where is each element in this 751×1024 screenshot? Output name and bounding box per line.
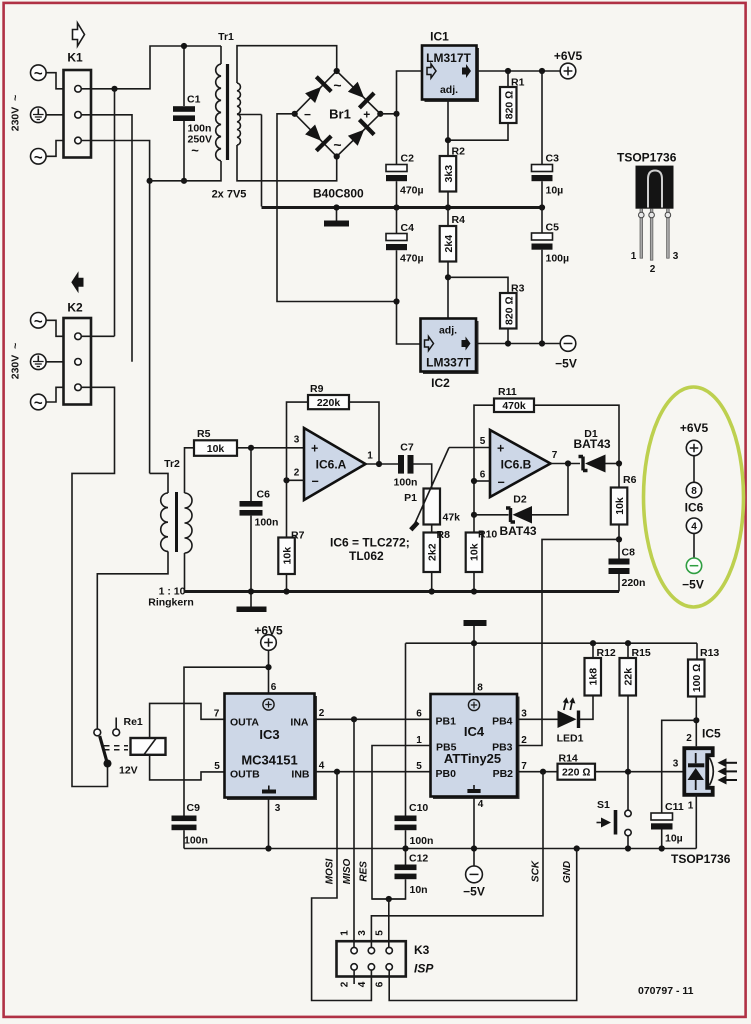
svg-text:10k: 10k: [207, 443, 225, 455]
node R5/C6: [248, 445, 254, 451]
AC source symbol (K2 bottom): [31, 387, 64, 412]
node K1 t1 / K2 feed: [111, 86, 117, 92]
svg-text:3: 3: [357, 930, 368, 936]
TSOP1736 package drawing: [617, 151, 679, 276]
svg-text:~: ~: [333, 137, 341, 153]
node R1 top: [505, 68, 511, 74]
svg-text:Tr1: Tr1: [218, 31, 234, 43]
node pin8: [471, 640, 477, 646]
svg-text:Ringkern: Ringkern: [148, 597, 194, 609]
svg-text:10n: 10n: [410, 884, 428, 896]
svg-text:3: 3: [294, 435, 300, 446]
push button S1: [597, 799, 632, 849]
-5V output terminal: [555, 336, 577, 371]
capacitor C3 (polarized): [532, 71, 564, 208]
svg-text:C9: C9: [187, 802, 201, 814]
resistor R15: [620, 643, 651, 810]
svg-text:2: 2: [340, 981, 351, 987]
node C3 top: [539, 68, 545, 74]
+6V5 distribution rail: [406, 642, 698, 644]
svg-text:4: 4: [319, 761, 325, 772]
svg-text:10µ: 10µ: [546, 185, 564, 197]
svg-text:~: ~: [34, 395, 43, 412]
svg-text:070797 - 11: 070797 - 11: [638, 985, 694, 997]
svg-text:C3: C3: [546, 153, 560, 165]
svg-text:7: 7: [214, 709, 220, 720]
svg-text:C10: C10: [409, 802, 428, 814]
connector K1: [64, 51, 92, 158]
svg-text:1: 1: [631, 251, 637, 262]
resistor R3: [500, 283, 525, 344]
arrow mains-in (outline, pointing right): [73, 23, 85, 46]
ground symbol (signal rail): [237, 592, 267, 613]
relay switch contact Re1: [94, 716, 143, 777]
svg-text:5: 5: [480, 436, 486, 447]
diode D2 BAT43: [474, 464, 568, 539]
diode D1 BAT43: [573, 428, 619, 473]
svg-text:LED1: LED1: [557, 733, 584, 745]
wire Tr1 centre tap to 0V rail: [261, 115, 263, 207]
svg-text:6: 6: [480, 470, 486, 481]
IC4 ATTiny25: [416, 683, 527, 811]
svg-text:INA: INA: [290, 717, 309, 729]
capacitor C7 (series): [394, 442, 432, 489]
svg-text:6: 6: [416, 709, 422, 720]
wire +6V5 to C9: [184, 667, 269, 815]
wire IC3 pin3 to -5V rail: [268, 798, 270, 849]
node rail R8: [429, 588, 435, 594]
capacitor C1: [173, 46, 212, 181]
svg-text:~: ~: [191, 143, 199, 158]
wire K1 t1 to Tr1 primary top: [81, 46, 221, 89]
wire pin5 leg: [388, 899, 390, 947]
+6V5 supply tap (mid): [254, 624, 283, 694]
K3 pin2 stub: [353, 970, 355, 984]
svg-text:230V ~: 230V ~: [10, 95, 22, 132]
wire plus column up to IC1 input: [397, 71, 423, 165]
resistor R9 (feedback): [287, 383, 380, 480]
svg-text:10k: 10k: [469, 543, 481, 561]
svg-text:C2: C2: [401, 153, 415, 165]
svg-text:RES: RES: [359, 861, 370, 882]
node R6/C8/PB3: [616, 536, 622, 542]
wire K2 t3 to relay switch: [72, 387, 115, 786]
resistor R12: [585, 643, 616, 695]
node R13/C11/IC5 pin2: [693, 717, 699, 723]
wire IC1 out to +6V5: [477, 70, 561, 72]
node C5 bottom: [539, 340, 545, 346]
resistor R11 (feedback): [474, 386, 619, 533]
node C1 bottom: [181, 178, 187, 184]
svg-text:100n: 100n: [410, 835, 434, 847]
svg-text:10k: 10k: [614, 497, 626, 515]
node rail S1: [625, 845, 631, 851]
svg-text:470k: 470k: [502, 400, 526, 412]
wire bridge plus to regulator column: [380, 113, 396, 115]
svg-text:R5: R5: [197, 428, 211, 440]
IC2 LM337T: [421, 319, 479, 391]
svg-text:IC6 = TLC272;: IC6 = TLC272;: [330, 536, 410, 550]
resistor R1: [448, 71, 525, 140]
node C4/bridge-minus junction: [393, 298, 399, 304]
svg-text:3: 3: [275, 803, 281, 814]
svg-text:IC2: IC2: [431, 376, 450, 390]
-5V bottom rail: [184, 848, 696, 850]
node rail C10: [402, 845, 408, 851]
wire IC5 pin1 to -5V rail: [695, 795, 697, 849]
svg-text:~: ~: [34, 313, 43, 330]
svg-text:PB1: PB1: [436, 716, 457, 728]
wire relay coil to IC3 OUTA/OUTB: [150, 703, 225, 738]
green ellipse IC6 power: [644, 387, 744, 607]
wire C8 node to IC4 PB3: [517, 539, 619, 745]
svg-text:820 Ω: 820 Ω: [503, 296, 515, 325]
capacitor C11 (polarized): [651, 720, 696, 848]
arrow load-out (filled, pointing left): [71, 271, 83, 293]
svg-text:7: 7: [552, 450, 558, 461]
resistor R8: [424, 529, 451, 592]
svg-text:7: 7: [521, 761, 527, 772]
node rail R2/R4: [445, 204, 451, 210]
svg-text:C8: C8: [622, 547, 636, 559]
+6V5 supply bar (IC4): [464, 620, 487, 626]
0V mid rail: [262, 206, 543, 209]
svg-text:TL062: TL062: [349, 549, 384, 563]
svg-text:2k4: 2k4: [443, 235, 455, 253]
wire rail left leg to C10: [405, 643, 407, 815]
svg-text:R9: R9: [310, 383, 324, 395]
transformer Tr2 (current transformer): [97, 448, 194, 729]
svg-text:PB5: PB5: [436, 742, 457, 754]
wire P1 wiper to IC6.B pin5: [449, 447, 490, 449]
wire RES: PB5 to K3 pin5: [372, 746, 431, 900]
wire IC6.A output: [366, 463, 399, 465]
ground symbol (0V rail): [324, 208, 349, 227]
svg-text:D2: D2: [513, 494, 527, 506]
svg-text:100µ: 100µ: [546, 253, 570, 265]
svg-text:PB0: PB0: [436, 768, 457, 780]
svg-text:K3: K3: [414, 943, 430, 957]
svg-text:2: 2: [521, 735, 527, 746]
svg-text:820 Ω: 820 Ω: [503, 91, 515, 120]
wire IC6.B output: [551, 463, 581, 465]
node rail C3/C5: [539, 204, 545, 210]
IC1 adj column / node: [447, 100, 449, 157]
AC source symbol L (K1 top): [31, 65, 64, 89]
svg-text:−: −: [498, 476, 505, 490]
svg-text:PB3: PB3: [492, 742, 513, 754]
connector K3 ISP: [337, 930, 435, 988]
node output/D2 return: [565, 460, 571, 466]
svg-text:R10: R10: [478, 529, 497, 541]
wire Tr1 primary bottom: [150, 161, 221, 181]
svg-text:C1: C1: [187, 94, 201, 106]
-5V supply tap: [463, 849, 485, 899]
svg-text:R2: R2: [452, 146, 466, 158]
svg-text:5: 5: [214, 761, 220, 772]
node rail C2/C4: [393, 204, 399, 210]
resistor R2: [440, 146, 465, 208]
svg-text:R13: R13: [700, 647, 719, 659]
svg-text:R3: R3: [511, 283, 525, 295]
resistor R10: [466, 529, 498, 592]
svg-text:470µ: 470µ: [400, 253, 424, 265]
wire MISO: PB1 to K3 pin1: [353, 719, 355, 947]
svg-text:230V ~: 230V ~: [10, 343, 22, 380]
svg-text:IC6.A: IC6.A: [316, 458, 347, 472]
svg-text:INB: INB: [291, 769, 310, 781]
node MISO tap: [351, 716, 357, 722]
wire K1 t3 down (mains L): [81, 141, 149, 474]
svg-text:−: −: [312, 475, 319, 489]
svg-text:R11: R11: [498, 386, 517, 398]
svg-text:MC34151: MC34151: [241, 753, 297, 768]
capacitor C2 (polarized): [386, 153, 424, 208]
svg-text:P1: P1: [404, 492, 417, 504]
svg-text:IC5: IC5: [702, 727, 721, 741]
node D1/R11/R6: [616, 460, 622, 466]
svg-text:1: 1: [340, 930, 351, 936]
node rail IC3 pin3: [265, 845, 271, 851]
svg-text:5: 5: [416, 761, 422, 772]
node Tr1 primary bottom: [147, 178, 153, 184]
node rail C11: [659, 845, 665, 851]
svg-text:4: 4: [478, 799, 484, 810]
node pin6: [471, 478, 477, 484]
node R3 bottom: [505, 340, 511, 346]
node rail GND leg: [574, 845, 580, 851]
svg-text:220k: 220k: [317, 397, 341, 409]
resistor R4: [440, 208, 465, 319]
svg-text:8: 8: [691, 486, 697, 497]
node R4/R3 adj junction: [445, 274, 451, 280]
svg-text:S1: S1: [597, 799, 610, 811]
svg-text:R7: R7: [291, 530, 305, 542]
capacitor C10: [395, 802, 434, 865]
IR arrows into IC5: [718, 758, 738, 784]
wire IC6.B pin6: [474, 480, 490, 482]
svg-text:LM317T: LM317T: [426, 51, 471, 65]
LED1: [517, 696, 593, 745]
svg-text:~: ~: [34, 149, 43, 166]
IC5 TSOP1736 receiver: [673, 727, 721, 812]
svg-text:Br1: Br1: [329, 107, 351, 122]
svg-text:IC4: IC4: [464, 724, 485, 739]
wire supply bar to +6V5 rail and IC4 pin8: [473, 626, 475, 694]
svg-text:3k3: 3k3: [443, 165, 455, 183]
svg-text:ISP: ISP: [414, 962, 434, 976]
node R14/R15/S1: [625, 769, 631, 775]
svg-text:R15: R15: [632, 647, 651, 659]
resistor R6: [611, 464, 637, 540]
svg-text:22k: 22k: [623, 668, 635, 686]
svg-text:5: 5: [375, 930, 386, 936]
svg-text:K1: K1: [67, 51, 83, 65]
earth symbol (K1 mid): [31, 107, 64, 123]
svg-text:2: 2: [650, 264, 656, 275]
wire PB3 stub (already drawn) / resistor R14: [517, 753, 683, 780]
svg-text:R12: R12: [597, 647, 616, 659]
svg-text:+: +: [497, 442, 504, 456]
op-amp IC6.A: [294, 428, 374, 500]
node RES/pin5: [386, 896, 392, 902]
node output/feedback: [376, 461, 382, 467]
svg-text:B40C800: B40C800: [313, 187, 364, 201]
svg-text:4: 4: [357, 981, 368, 987]
svg-text:TSOP1736: TSOP1736: [617, 151, 677, 165]
svg-text:Tr2: Tr2: [164, 458, 180, 470]
bridge rectifier Br1: [292, 68, 384, 201]
capacitor C8: [609, 539, 646, 591]
resistor R7: [278, 480, 304, 591]
node MOSI tap: [334, 769, 340, 775]
svg-text:BAT43: BAT43: [499, 524, 536, 538]
svg-text:100n: 100n: [394, 477, 418, 489]
svg-text:C7: C7: [400, 442, 414, 454]
node pin2/R7: [283, 477, 289, 483]
node rail gnd stub: [333, 204, 339, 210]
capacitor C12: [372, 853, 428, 900]
svg-text:MOSI: MOSI: [325, 859, 336, 885]
node rail R10: [471, 588, 477, 594]
IC1 LM317T: [422, 30, 479, 103]
svg-text:TSOP1736: TSOP1736: [671, 852, 731, 866]
svg-text:C4: C4: [401, 222, 415, 234]
svg-text:~: ~: [34, 66, 43, 83]
svg-text:3: 3: [673, 759, 679, 770]
svg-text:470µ: 470µ: [400, 185, 424, 197]
wire IC6.A pin2: [287, 479, 305, 481]
AC source symbol N (K1 bottom): [31, 141, 64, 167]
node C1 top: [181, 43, 187, 49]
wire K2 t1: [81, 335, 114, 337]
svg-text:adj.: adj.: [439, 325, 457, 337]
connector K2: [64, 301, 92, 405]
+6V5 output terminal: [554, 49, 583, 79]
svg-text:−5V: −5V: [682, 578, 704, 592]
svg-text:R4: R4: [452, 214, 466, 226]
svg-text:R14: R14: [559, 753, 578, 765]
node bridge plus column: [393, 111, 399, 117]
capacitor C6: [240, 448, 279, 592]
svg-text:2k2: 2k2: [427, 543, 439, 561]
wire MOSI: PB0 to K3 pin4: [312, 772, 372, 1001]
resistor R13: [688, 643, 719, 746]
svg-text:12V: 12V: [119, 765, 138, 777]
node rail R7: [283, 588, 289, 594]
svg-text:1: 1: [416, 735, 422, 746]
svg-text:IC1: IC1: [430, 30, 449, 44]
wire IC4 pin4 to -5V rail: [473, 797, 475, 849]
svg-text:6: 6: [271, 682, 277, 693]
svg-text:−5V: −5V: [463, 885, 485, 899]
svg-text:IC6.B: IC6.B: [501, 458, 532, 472]
svg-text:100n: 100n: [184, 835, 208, 847]
svg-text:220 Ω: 220 Ω: [562, 767, 591, 779]
wire SCK: PB2 to K3 pin3: [371, 772, 543, 948]
svg-text:~: ~: [333, 77, 341, 93]
wire bridge minus to IC2 input column: [277, 114, 397, 302]
wire GND: -5V rail to K3 pin6: [389, 849, 577, 1001]
wire IC2 out to -5V: [476, 343, 560, 345]
svg-text:3: 3: [673, 251, 679, 262]
svg-text:+6V5: +6V5: [680, 421, 709, 435]
svg-text:IC3: IC3: [259, 727, 279, 742]
svg-text:−: −: [304, 107, 311, 121]
svg-text:adj.: adj.: [440, 84, 458, 96]
svg-text:GND: GND: [562, 861, 573, 883]
svg-text:PB4: PB4: [492, 716, 513, 728]
capacitor C9: [172, 802, 208, 849]
wire earth K1-K2: [81, 115, 132, 362]
svg-text:2x 7V5: 2x 7V5: [212, 189, 247, 201]
relay coil Re1: [104, 738, 166, 755]
potentiometer P1: [404, 448, 460, 533]
svg-text:1k8: 1k8: [588, 668, 600, 686]
svg-text:R8: R8: [437, 529, 451, 541]
svg-text:PB2: PB2: [493, 768, 514, 780]
svg-text:R6: R6: [623, 474, 637, 486]
svg-text:OUTB: OUTB: [230, 769, 260, 781]
svg-text:+: +: [311, 442, 318, 456]
svg-text:Re1: Re1: [124, 716, 143, 728]
svg-text:LM337T: LM337T: [426, 356, 471, 370]
svg-text:2: 2: [294, 468, 300, 479]
svg-text:C6: C6: [257, 489, 271, 501]
svg-text:1: 1: [367, 451, 373, 462]
svg-text:−5V: −5V: [555, 357, 577, 371]
svg-text:R1: R1: [511, 77, 525, 89]
svg-text:C12: C12: [409, 853, 428, 865]
node D2 tap: [471, 512, 477, 518]
node +6V5 tap / C9 branch: [265, 664, 271, 670]
svg-text:SCK: SCK: [531, 860, 542, 882]
svg-text:10µ: 10µ: [665, 833, 683, 845]
transformer Tr1: [212, 31, 337, 201]
wire adj to R3: [448, 277, 508, 293]
svg-text:47k: 47k: [443, 512, 461, 524]
svg-text:MISO: MISO: [342, 859, 353, 885]
AC source symbol (K2 top): [31, 313, 64, 337]
svg-text:4: 4: [691, 522, 697, 533]
node rail IC4 pin4: [471, 845, 477, 851]
wire N vertical to K2 t1: [114, 89, 116, 336]
wire INB to IC4 PB0: [315, 771, 431, 773]
capacitor C5 (polarized): [532, 208, 570, 344]
svg-text:+: +: [363, 107, 370, 121]
svg-text:8: 8: [477, 683, 483, 694]
svg-text:6: 6: [375, 981, 386, 987]
svg-text:100 Ω: 100 Ω: [691, 664, 703, 693]
earth symbol (K2 mid): [31, 354, 64, 370]
svg-text:IC6: IC6: [685, 501, 704, 515]
resistor R5: [194, 428, 304, 456]
svg-text:C5: C5: [546, 222, 560, 234]
svg-text:K2: K2: [67, 301, 83, 315]
svg-text:C11: C11: [665, 801, 684, 813]
svg-text:10k: 10k: [281, 547, 293, 565]
svg-text:+6V5: +6V5: [554, 49, 583, 63]
svg-text:OUTA: OUTA: [230, 717, 259, 729]
svg-text:2: 2: [319, 708, 325, 719]
svg-text:BAT43: BAT43: [573, 437, 610, 451]
capacitor C4 (polarized): [386, 208, 424, 345]
signal 0V rail: [185, 590, 620, 593]
wire INA to IC4 PB1: [315, 718, 431, 720]
node R15: [625, 640, 631, 646]
svg-text:220n: 220n: [622, 577, 646, 589]
svg-text:100n: 100n: [255, 517, 279, 529]
